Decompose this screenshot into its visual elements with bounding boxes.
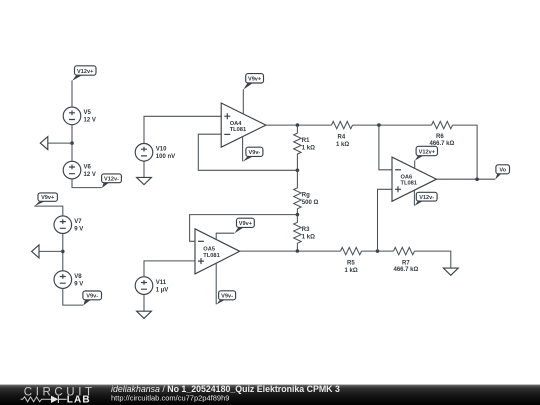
svg-text:1 kΩ: 1 kΩ [336, 142, 349, 148]
resistor R7 466.7 kOhm [394, 247, 419, 272]
net flag V9v+ (OA4 power) [243, 74, 263, 90]
svg-text:V10: V10 [156, 147, 167, 153]
svg-text:R3: R3 [302, 227, 310, 233]
node junction Rg/R3 [296, 213, 300, 217]
wire (OA6 V- pin) [413, 190, 415, 205]
net flag V9v+ (OA5 power) [235, 218, 255, 233]
node junction output OA4 [296, 123, 300, 127]
wire (OA4 output) [266, 124, 332, 126]
svg-text:V6: V6 [84, 164, 92, 170]
svg-text:OA6: OA6 [401, 174, 413, 180]
ground (left arrow) [40, 137, 48, 150]
svg-text:V5: V5 [84, 110, 92, 116]
svg-text:Vo: Vo [499, 168, 506, 174]
svg-text:OA5: OA5 [203, 246, 215, 252]
svg-text:Rg: Rg [302, 192, 310, 198]
svg-text:http://circuitlab.com/cu77p2p4: http://circuitlab.com/cu77p2p4f89h9 [111, 394, 229, 403]
op-amp OA4 TL081 [221, 103, 266, 147]
wire [34, 206, 63, 216]
wire [71, 125, 73, 162]
wire (OA5 V- pin) [215, 263, 217, 304]
svg-text:R1: R1 [302, 138, 310, 144]
wire [144, 261, 195, 277]
svg-text:1 kΩ: 1 kΩ [302, 234, 315, 240]
svg-text:R5: R5 [347, 261, 355, 267]
svg-text:LAB: LAB [67, 395, 91, 405]
svg-text:V9v+: V9v+ [248, 77, 262, 83]
voltage source V7 [54, 216, 83, 234]
svg-text:100 nV: 100 nV [156, 154, 175, 160]
wire (OA4 V+ pin) [242, 89, 244, 114]
svg-text:500 Ω: 500 Ω [302, 200, 319, 206]
wire [453, 125, 478, 179]
wire [362, 250, 394, 252]
svg-text:V12v-: V12v- [419, 195, 434, 201]
resistor Rg 500 Ohm [294, 170, 319, 214]
wire [353, 124, 432, 126]
svg-text:12 V: 12 V [84, 118, 96, 124]
voltage source V10 [135, 144, 175, 162]
wire (OA4 V- pin) [242, 137, 244, 162]
voltage source V6 [63, 161, 96, 179]
svg-text:V11: V11 [156, 280, 167, 286]
wire (OA6 output) [437, 178, 496, 180]
svg-text:466.7 kΩ: 466.7 kΩ [394, 267, 419, 273]
wire [72, 179, 102, 188]
voltage source V11 [135, 277, 168, 295]
svg-text:V9v-: V9v- [221, 294, 233, 300]
wire [143, 294, 145, 311]
wire [48, 142, 72, 144]
svg-text:R7: R7 [402, 261, 410, 267]
wire (to OA6 inverting input) [379, 125, 392, 170]
ground [137, 311, 152, 318]
svg-text:9 V: 9 V [74, 281, 83, 287]
wire [144, 116, 221, 143]
svg-text:R4: R4 [338, 135, 346, 141]
net flag V12v- [102, 174, 122, 188]
svg-text:12 V: 12 V [84, 172, 96, 178]
wire [63, 288, 84, 305]
node junction OA6 out [475, 177, 479, 181]
svg-text:V12v-: V12v- [104, 177, 119, 183]
ground (left arrow) [32, 245, 39, 258]
voltage source V8 [54, 271, 83, 289]
net flag V9v- (OA5 power) [216, 291, 235, 305]
net flag Vo (output) [495, 165, 509, 180]
svg-text:TL081: TL081 [230, 127, 246, 133]
node junction R1/Rg [296, 169, 300, 173]
svg-text:ideliakhansa / No 1_20524180_Q: ideliakhansa / No 1_20524180_Quiz Elektr… [111, 384, 340, 394]
svg-text:TL081: TL081 [203, 253, 219, 259]
wire (to OA6 non-inverting input) [378, 189, 393, 251]
resistor R3 1 kOhm [294, 215, 315, 251]
wire (OA5 V+ pin) [216, 233, 234, 240]
svg-text:9 V: 9 V [74, 226, 83, 232]
svg-text:V9v+: V9v+ [41, 195, 55, 201]
wire (OA5 feedback) [190, 215, 298, 242]
wire (OA5 output) [240, 250, 341, 252]
op-amp OA6 TL081 [392, 157, 437, 201]
resistor R6 466.7 kOhm [430, 121, 455, 147]
svg-text:TL081: TL081 [401, 181, 417, 187]
voltage source V5 [63, 107, 96, 125]
net flag V12v- (OA6 power) [415, 192, 438, 205]
net flag V12v+ (left supply top) [72, 66, 96, 81]
net flag V9v- (OA4 power) [243, 147, 263, 161]
wire [143, 161, 145, 177]
resistor R4 1 kOhm [332, 121, 353, 148]
wire (OA6 V+ pin) [414, 160, 416, 168]
wire [39, 250, 63, 252]
node junction R3/OA5 out [296, 249, 300, 253]
svg-text:V9v-: V9v- [86, 294, 98, 300]
ground [443, 268, 458, 275]
node junction V7/V8 [61, 250, 65, 254]
CircuitLab logo wordmark [21, 386, 96, 405]
resistor R5 1 kOhm [341, 247, 362, 274]
svg-text:V7: V7 [74, 219, 82, 225]
svg-text:V8: V8 [74, 274, 82, 280]
svg-text:V12v+: V12v+ [77, 69, 94, 75]
svg-text:1 kΩ: 1 kΩ [345, 268, 358, 274]
node junction R4/R6/OA6- [377, 123, 381, 127]
net flag V9v- [83, 291, 102, 305]
svg-text:V12v+: V12v+ [419, 149, 436, 155]
net flag V9v+ (left supply 2) [34, 193, 57, 206]
footer title text [111, 384, 340, 403]
wire [62, 234, 64, 271]
wire (OA4 feedback) [198, 134, 297, 170]
svg-text:OA4: OA4 [230, 121, 243, 127]
wire [71, 81, 73, 108]
svg-text:V9v-: V9v- [248, 150, 260, 156]
node junction V5/V6 [70, 141, 74, 145]
svg-text:1 kΩ: 1 kΩ [302, 146, 315, 152]
svg-text:V9v+: V9v+ [239, 221, 253, 227]
net flag V12v+ (OA6 power) [415, 146, 438, 160]
footer bar [0, 385, 540, 405]
node junction R5/R7/OA6+ [376, 249, 380, 253]
op-amp OA5 TL081 [195, 229, 240, 274]
svg-text:R6: R6 [436, 134, 444, 140]
resistor R1 1 kOhm [294, 125, 315, 170]
ground [137, 177, 152, 184]
wire [415, 251, 451, 268]
svg-text:1 µV: 1 µV [156, 287, 168, 293]
